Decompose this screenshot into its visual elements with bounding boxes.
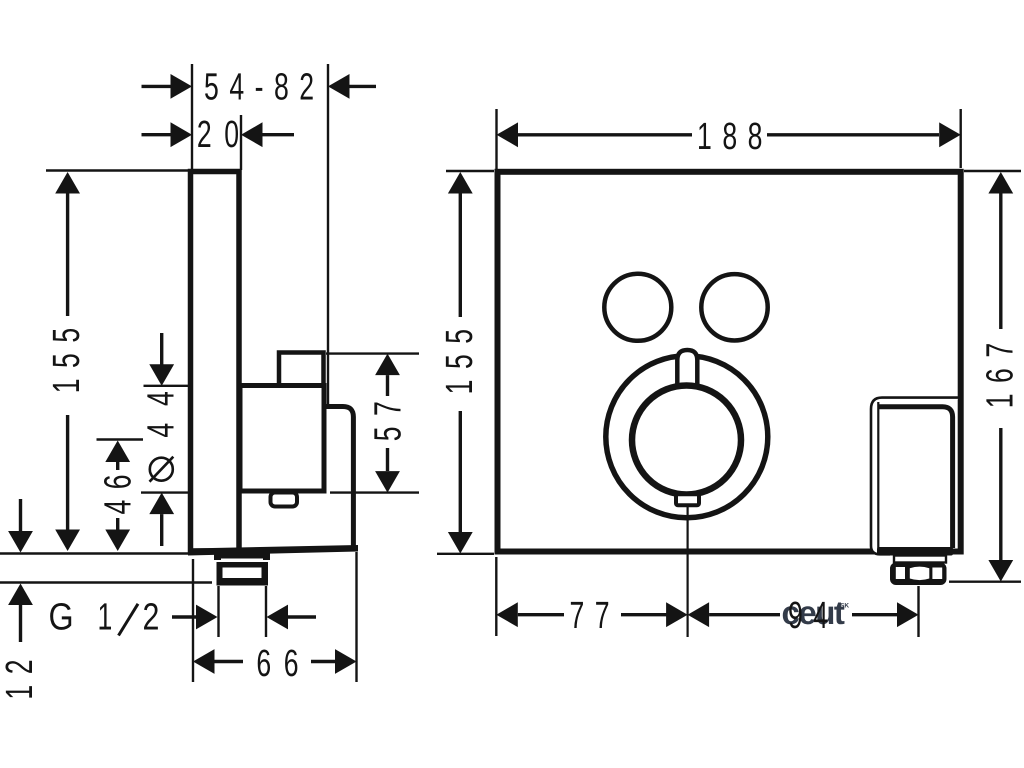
- thermostat knob outer ring: [606, 356, 768, 518]
- extension line G1/2 right: [265, 586, 267, 637]
- dimension 54-82: [142, 85, 172, 88]
- svg-text:20: 20: [197, 114, 252, 156]
- svg-text:46: 46: [98, 464, 140, 515]
- nut lip: [894, 556, 946, 563]
- svg-text:155: 155: [439, 318, 481, 394]
- extension line O44 bottom / 57 bottom left: [141, 491, 190, 493]
- extension line 77 left: [495, 557, 497, 636]
- svg-text:155: 155: [46, 317, 88, 393]
- extension line G1/2 left: [217, 586, 219, 637]
- extension line 167 bottom: [949, 581, 1021, 583]
- face plate (front view): [498, 172, 961, 552]
- svg-text:SK: SK: [840, 602, 849, 609]
- extension line 57 top: [326, 352, 419, 354]
- svg-text:66: 66: [256, 643, 311, 685]
- extension line 167 top: [964, 170, 1021, 172]
- svg-text:188: 188: [697, 116, 773, 158]
- nut facet right: [932, 568, 942, 580]
- dimension 155 (front view): [448, 172, 473, 194]
- svg-text:12: 12: [0, 649, 41, 700]
- bottom thick edge (plate + holder bottom): [188, 545, 358, 556]
- select button left: [604, 274, 671, 341]
- extension line 46 top: [97, 438, 144, 440]
- extension line 188 right: [960, 109, 962, 168]
- handle body (side view): [240, 386, 324, 492]
- watermark ceut SK: [782, 594, 850, 631]
- extension line thread bottom (12): [0, 581, 212, 583]
- hex nut: [890, 563, 947, 586]
- extension line 94 right: [917, 586, 919, 637]
- wall plate (side view): [191, 172, 240, 552]
- dimension 94: [688, 602, 710, 627]
- extension line top of plate (155 top): [46, 169, 190, 171]
- svg-text:G: G: [49, 596, 74, 638]
- thread white band: [223, 568, 262, 579]
- extension line bottom of plate (155/12): [0, 552, 190, 554]
- dimension 66: [193, 649, 215, 674]
- thread slit: [221, 559, 263, 563]
- svg-text:44: 44: [141, 374, 183, 437]
- handle top tab (side view): [279, 353, 324, 386]
- extension line 66 left: [192, 559, 194, 682]
- extension line O44 top: [144, 385, 190, 387]
- extension line 66 right: [355, 552, 357, 682]
- extension line 155 top (front): [446, 170, 494, 172]
- svg-text:57: 57: [368, 391, 410, 442]
- clip at handle bottom: [271, 493, 298, 507]
- holder bracket profile (behind body, side view): [322, 407, 353, 550]
- svg-text:77: 77: [570, 595, 621, 637]
- extension line 155 bottom (front): [437, 553, 494, 555]
- extension line 57 bottom: [330, 491, 419, 493]
- holder inner left line: [877, 402, 879, 548]
- svg-text:167: 167: [980, 332, 1022, 408]
- knob top tab: [677, 350, 697, 388]
- svg-text:1: 1: [98, 596, 113, 638]
- dimension 57: [375, 354, 400, 376]
- svg-text:54-82: 54-82: [204, 67, 325, 109]
- dimension 77: [496, 602, 518, 627]
- knob inner circle: [632, 386, 741, 495]
- dimension 167: [988, 172, 1013, 194]
- dimension 155 (side view): [55, 172, 80, 194]
- dimension 20: [142, 133, 172, 136]
- select button right: [701, 274, 767, 340]
- thread body: [217, 562, 269, 586]
- nut facet left: [896, 567, 905, 579]
- shower holder outer outline (front view): [871, 398, 959, 555]
- knob center line: [686, 507, 688, 637]
- G1/2 thread flange: [214, 549, 270, 560]
- holder inner top edge + right edge: [878, 407, 953, 548]
- holder bottom thick edge: [877, 547, 953, 556]
- knob bottom tab: [676, 494, 699, 505]
- extension line 188 left: [495, 109, 497, 169]
- dimension 188: [497, 122, 519, 147]
- svg-text:94: 94: [788, 595, 839, 637]
- extension line x=241 (20 dim): [240, 115, 242, 170]
- svg-text:2: 2: [143, 596, 160, 638]
- extension line x=192 above plate: [191, 64, 193, 170]
- extension line x=328 (front face): [327, 64, 329, 404]
- dimension O44: [160, 333, 163, 365]
- nut facet middle: [910, 567, 930, 581]
- dimension 46: [105, 441, 130, 463]
- dimension 12: [19, 499, 22, 531]
